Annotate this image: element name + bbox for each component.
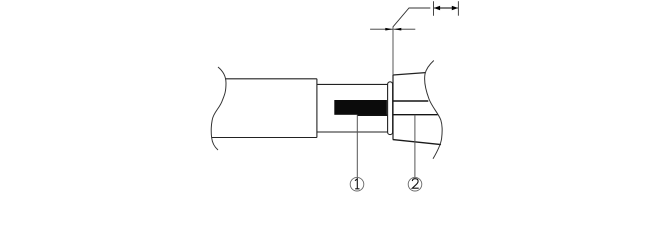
reference dimension right tick	[457, 1, 459, 16]
callout 2 label (digit 2)	[412, 179, 418, 189]
hose outer body (large rectangle)	[212, 79, 317, 138]
width dimension left line	[370, 28, 393, 30]
callout 2 circle	[408, 177, 422, 191]
reference dimension right arrowhead	[452, 6, 458, 11]
reference dimension left arrowhead	[434, 6, 440, 11]
callout 1 circle	[350, 177, 364, 191]
reference dimension left tick	[433, 1, 435, 16]
callout 1 leader	[356, 115, 358, 177]
fitting inner line lower	[393, 114, 438, 116]
ferrule ring (rounded flange)	[388, 82, 393, 135]
width dimension right line	[394, 28, 416, 30]
fitting bottom edge	[393, 140, 441, 145]
fitting inner line upper	[393, 100, 428, 102]
marking band (solid black)	[334, 100, 387, 115]
inner hose section (small rectangle)	[317, 84, 388, 132]
callout 2 leader	[414, 115, 416, 178]
width dimension left arrowhead	[385, 28, 393, 31]
callout 1 label (digit 1)	[355, 179, 360, 189]
extension line (vertical, at ferrule)	[392, 27, 394, 76]
hose break line (left S-curve)	[211, 67, 226, 150]
fitting break line (right S-curve)	[425, 61, 442, 159]
fitting top edge	[393, 73, 425, 75]
width dimension right arrowhead	[394, 28, 402, 31]
reference dimension arrow line	[434, 7, 458, 9]
leader line (diagonal from extension line)	[393, 8, 430, 27]
band lower edge line	[357, 114, 388, 116]
fitting left edge	[392, 75, 394, 140]
